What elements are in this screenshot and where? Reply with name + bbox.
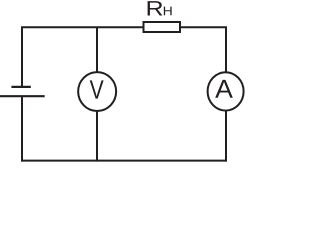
ammeter body circle — [208, 72, 244, 110]
battery cell B1: long plate (positive) — [0, 95, 45, 97]
wire bottom — [21, 160, 227, 162]
voltmeter V — [78, 72, 116, 111]
ammeter A — [208, 72, 244, 110]
ammeter letter A — [215, 80, 233, 98]
battery cell B1: short plate (negative) — [11, 86, 30, 88]
wire ammeter bottom branch — [225, 111, 227, 161]
resistor value label R — [148, 1, 163, 15]
wire left branch: battery top to top-left corner to resistor — [22, 27, 143, 86]
wire battery bottom to bottom-left corner — [21, 97, 23, 162]
wire voltmeter top branch — [96, 27, 98, 72]
resistor R_H — [144, 22, 181, 32]
wire resistor to top-right corner to ammeter — [181, 27, 226, 72]
resistor value label subscript H — [164, 7, 172, 16]
voltmeter body circle — [78, 72, 116, 111]
voltmeter letter V — [90, 80, 104, 98]
wire voltmeter bottom branch — [96, 111, 98, 161]
